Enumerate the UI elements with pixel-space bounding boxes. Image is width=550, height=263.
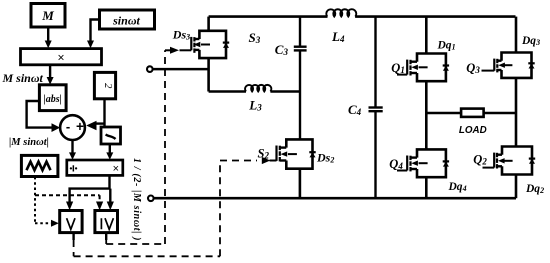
top rail xyxy=(209,15,328,18)
label V xyxy=(67,218,75,229)
dashed path IV to S3 gate xyxy=(106,50,165,244)
inductor L4 xyxy=(326,9,356,16)
wire multiplier to abs xyxy=(47,65,54,85)
dashed path V to S2 gate xyxy=(74,161,257,257)
wire summer to divider block xyxy=(69,140,76,160)
transistor S3 xyxy=(180,31,230,58)
transistor Q2 xyxy=(483,147,536,175)
wire divider to V and IV xyxy=(66,175,114,210)
wire L3 to C3 branch xyxy=(270,90,300,92)
block M xyxy=(31,4,65,28)
transistor Q3 xyxy=(482,53,535,78)
transistor S2 xyxy=(270,139,316,168)
multiplier block xyxy=(21,49,102,65)
label IV xyxy=(101,218,113,229)
wire sinwt to multiplier xyxy=(87,20,100,49)
C4 branch wire upper xyxy=(374,17,376,107)
dashed wire sawtooth to IV xyxy=(35,195,100,203)
capacitor C3 xyxy=(294,47,307,51)
S2 drain wire xyxy=(299,138,301,140)
svg-text:+: + xyxy=(76,119,84,134)
svg-text:×: × xyxy=(57,51,64,65)
wire abs to summer xyxy=(27,101,61,132)
load wire xyxy=(426,112,516,114)
svg-text:1 / (2- |M sinωt| ): 1 / (2- |M sinωt| ) xyxy=(131,158,142,241)
input terminal lower xyxy=(148,196,154,202)
svg-text:M sinωt: M sinωt xyxy=(2,71,44,85)
wire 2 to summer and reciprocal xyxy=(86,99,104,131)
left leg middle xyxy=(425,81,428,149)
block V xyxy=(60,211,82,233)
svg-text:M: M xyxy=(41,8,54,23)
block constant 2 xyxy=(94,72,115,98)
C3 branch wire lower to S2 drain xyxy=(299,51,301,139)
arrowhead into S2 gate xyxy=(262,157,271,164)
svg-text:2: 2 xyxy=(102,83,113,89)
block sinwt xyxy=(100,10,155,29)
right leg lower xyxy=(515,175,518,199)
wire M to multiplier xyxy=(45,27,52,48)
arrowhead into V xyxy=(51,220,59,227)
bottom rail xyxy=(154,197,516,200)
block IV xyxy=(95,211,118,233)
wire reciprocal to divider block xyxy=(106,144,113,160)
label divide sign xyxy=(70,165,78,171)
S3 drain wire xyxy=(207,17,210,31)
transistor Q1 xyxy=(397,54,449,82)
arrowhead into S3 gate xyxy=(170,47,179,54)
svg-text:|M sinωt|: |M sinωt| xyxy=(9,137,49,148)
left leg lower xyxy=(425,177,428,198)
capacitor C4 xyxy=(369,108,383,112)
H-bridge right leg upper xyxy=(515,17,518,53)
block abs xyxy=(39,85,66,111)
L3 wire xyxy=(209,90,246,92)
summing junction xyxy=(60,115,85,140)
sawtooth generator block xyxy=(21,155,58,176)
dashed wire sawtooth to V xyxy=(35,177,51,223)
block reciprocal xyxy=(101,127,121,144)
divider-multiplier block xyxy=(67,160,123,175)
C3 branch wire upper xyxy=(299,17,301,46)
svg-text:-: - xyxy=(66,119,70,134)
svg-text:×: × xyxy=(113,163,119,175)
svg-text:|abs|: |abs| xyxy=(44,94,62,105)
right leg middle xyxy=(515,78,518,147)
label slash rotated xyxy=(106,134,116,139)
H-bridge left leg upper xyxy=(425,17,428,54)
svg-text:LOAD: LOAD xyxy=(459,125,487,136)
inductor L3 xyxy=(245,85,271,92)
stub below V xyxy=(72,233,74,240)
transistor Q4 xyxy=(397,149,449,177)
svg-text:sinωt: sinωt xyxy=(112,14,140,28)
C4 branch wire lower xyxy=(374,112,376,198)
S2 source wire xyxy=(299,169,302,199)
arrowhead into IV xyxy=(96,202,103,211)
load resistor xyxy=(461,109,484,117)
stub below IV xyxy=(105,233,107,240)
S3 source wire xyxy=(207,58,210,91)
input terminal upper xyxy=(147,66,209,72)
